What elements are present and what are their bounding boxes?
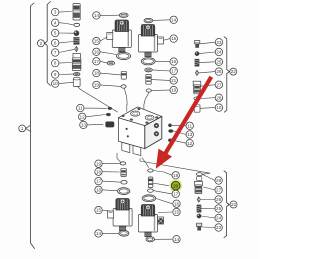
svg-text:17: 17 <box>171 69 177 74</box>
svg-text:12: 12 <box>187 141 193 146</box>
svg-text:27: 27 <box>216 188 222 193</box>
svg-text:19: 19 <box>94 83 100 88</box>
svg-text:25: 25 <box>216 206 222 211</box>
svg-text:15: 15 <box>94 39 100 44</box>
svg-text:13: 13 <box>81 123 87 128</box>
svg-text:16: 16 <box>96 187 102 192</box>
svg-text:25: 25 <box>216 59 222 64</box>
svg-text:11: 11 <box>187 123 192 128</box>
svg-text:19: 19 <box>96 161 102 166</box>
svg-text:20: 20 <box>173 183 179 188</box>
svg-text:14: 14 <box>171 17 177 22</box>
svg-text:16: 16 <box>174 201 180 206</box>
svg-text:3: 3 <box>54 10 57 15</box>
svg-text:17: 17 <box>173 192 179 197</box>
svg-text:22: 22 <box>231 202 237 207</box>
svg-text:2: 2 <box>40 41 43 46</box>
svg-text:28: 28 <box>216 178 222 183</box>
svg-text:16: 16 <box>171 59 177 64</box>
svg-text:13: 13 <box>187 132 193 137</box>
svg-text:10: 10 <box>216 105 222 110</box>
svg-text:17: 17 <box>94 59 100 64</box>
svg-text:7: 7 <box>54 50 57 55</box>
svg-text:23: 23 <box>216 225 222 230</box>
svg-text:26: 26 <box>216 69 222 74</box>
svg-text:19: 19 <box>173 173 179 178</box>
svg-text:4: 4 <box>54 20 57 25</box>
svg-text:24: 24 <box>216 216 222 221</box>
svg-text:18: 18 <box>94 71 100 76</box>
svg-text:10: 10 <box>53 81 59 86</box>
svg-text:12: 12 <box>80 114 86 119</box>
svg-text:11: 11 <box>78 106 83 111</box>
svg-text:14: 14 <box>94 13 100 18</box>
svg-text:21: 21 <box>171 78 177 83</box>
svg-text:15: 15 <box>96 208 102 213</box>
svg-text:22: 22 <box>231 69 237 74</box>
svg-text:15: 15 <box>171 36 177 41</box>
svg-text:14: 14 <box>174 237 180 242</box>
svg-text:14: 14 <box>96 231 102 236</box>
svg-text:24: 24 <box>216 50 222 55</box>
svg-text:6: 6 <box>54 41 57 46</box>
svg-text:26: 26 <box>216 197 222 202</box>
svg-text:18: 18 <box>96 169 102 174</box>
svg-text:27: 27 <box>216 82 222 87</box>
svg-text:9: 9 <box>54 72 57 77</box>
svg-text:19: 19 <box>171 88 177 93</box>
svg-text:16: 16 <box>94 49 100 54</box>
svg-text:1: 1 <box>21 126 24 131</box>
svg-text:28: 28 <box>216 95 222 100</box>
svg-text:17: 17 <box>96 179 102 184</box>
svg-text:23: 23 <box>216 40 222 45</box>
svg-text:5: 5 <box>54 31 57 36</box>
svg-text:15: 15 <box>174 210 180 215</box>
svg-text:8: 8 <box>54 61 57 66</box>
